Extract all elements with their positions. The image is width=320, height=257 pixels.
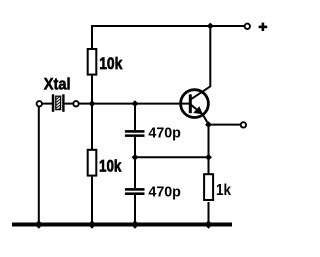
- svg-text:10k: 10k: [99, 156, 122, 175]
- wire node A down to R2: [91, 104, 93, 150]
- terminal + (supply) circle: [245, 24, 250, 29]
- node A junction dot: [89, 100, 96, 107]
- node B junction dot: [132, 100, 139, 107]
- wire C2 bottom to ground: [134, 195, 136, 224]
- terminal crystal left circle: [37, 101, 42, 106]
- svg-text:1k: 1k: [216, 182, 231, 199]
- transistor Q1 emitter arrow: [193, 106, 203, 114]
- wire crystal left terminal down to ground: [38, 107, 40, 225]
- wire node C down to C2: [134, 157, 136, 188]
- wire R1 bottom to node A: [91, 76, 93, 104]
- svg-text:470p: 470p: [148, 124, 181, 141]
- crystal X1 right plate: [62, 94, 64, 112]
- junction dot top rail / collector: [207, 23, 214, 30]
- ground junction dot 1: [35, 220, 43, 228]
- wire node B down to C1: [134, 104, 136, 131]
- wire left terminal to crystal: [43, 103, 52, 105]
- terminal crystal right circle: [73, 101, 78, 106]
- svg-text:470p: 470p: [148, 184, 181, 201]
- wire right terminal to node A: [79, 103, 92, 105]
- wire node C to node D (emitter branch): [135, 156, 209, 158]
- node E junction dot: [205, 154, 212, 161]
- wire emitter junction to output terminal: [209, 124, 241, 126]
- wire base rail node A to transistor: [92, 103, 190, 105]
- crystal X1 hatched body: [55, 95, 61, 111]
- wire emitter down: [208, 125, 210, 175]
- wire top rail: [92, 25, 245, 27]
- terminal output circle: [241, 122, 246, 127]
- ground junction dot 3: [131, 220, 139, 228]
- transistor Q1 collector: [191, 25, 210, 99]
- resistor R1 10k body: [88, 49, 97, 75]
- wire R2 bottom to ground: [91, 177, 93, 224]
- ground junction dot 2: [88, 220, 96, 228]
- ground bus bar: [12, 223, 232, 227]
- crystal X1 left plate: [52, 94, 55, 112]
- transistor Q1 emitter: [191, 105, 209, 125]
- label +: [259, 23, 268, 31]
- transistor Q1 circle: [181, 90, 209, 118]
- svg-text:10k: 10k: [99, 54, 123, 73]
- wire from top rail down to R1: [91, 25, 93, 49]
- node D emitter junction dot: [205, 121, 212, 128]
- wire R3 bottom to ground: [208, 202, 210, 224]
- resistor R3 1k body: [204, 174, 213, 200]
- transistor Q1 base bar: [189, 94, 192, 113]
- resistor R2 10k body: [88, 150, 97, 176]
- wire C1 to node C: [134, 137, 136, 157]
- capacitor C1 470p plates: [125, 130, 145, 133]
- wire crystal to right terminal: [65, 103, 74, 105]
- node C junction dot: [132, 154, 139, 161]
- capacitor C2 470p plates: [125, 188, 145, 191]
- svg-text:Xtal: Xtal: [44, 74, 71, 93]
- ground junction dot 4: [204, 220, 212, 228]
